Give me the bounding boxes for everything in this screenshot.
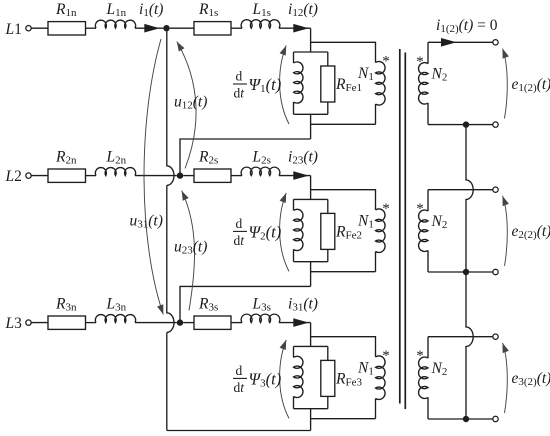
mid vertical through shunt (1) — [310, 114, 312, 139]
svg-text:i23(t): i23(t) — [288, 149, 318, 167]
secondary junction (2) — [463, 269, 469, 275]
wire R2s to L2s — [231, 175, 242, 177]
core separator line 1 — [399, 49, 401, 404]
svg-text:R1s: R1s — [198, 1, 218, 19]
N1 bottom rail (2) — [311, 271, 376, 273]
svg-text:L3n: L3n — [106, 296, 127, 314]
wire corner down (phase 1) — [310, 28, 312, 52]
current arrow i1(2) — [441, 38, 457, 47]
shunt bottom bar (1) — [294, 113, 328, 115]
secondary bottom terminal (3) — [493, 416, 498, 421]
winding N2 (unit 3) — [427, 337, 429, 358]
svg-text:u23(t): u23(t) — [174, 239, 207, 257]
svg-text:*: * — [416, 348, 424, 364]
svg-text:i1(2)(t) = 0: i1(2)(t) = 0 — [436, 17, 498, 35]
svg-text:dt: dt — [234, 380, 246, 395]
svg-text:L1: L1 — [5, 21, 22, 38]
flux arrow dPsi1/dt — [280, 46, 289, 125]
svg-text:L1n: L1n — [106, 1, 127, 19]
N1 bottom stub (2) — [375, 252, 377, 272]
svg-text:e3(2)(t): e3(2)(t) — [512, 370, 550, 388]
magnetizing inductor (unit 3) — [293, 346, 295, 357]
wire node to R3s — [183, 322, 194, 324]
node C junction — [177, 319, 183, 325]
voltage arrow u12 — [177, 42, 196, 169]
svg-text:N1: N1 — [357, 65, 374, 83]
svg-text:L3s: L3s — [252, 296, 271, 314]
wire R3n to L3n — [86, 322, 97, 324]
wire continue down (hop over L3) — [167, 185, 174, 332]
iron-loss resistor RFe2 — [327, 199, 329, 213]
emf arrow e3(2) — [503, 343, 508, 413]
secondary top rail (3) — [428, 336, 493, 338]
wire L3n to node — [135, 322, 177, 324]
secondary bottom rail (2) — [428, 271, 493, 273]
inductor L2s — [241, 167, 280, 175]
resistor R3s — [194, 316, 231, 329]
svg-text:L3: L3 — [5, 315, 23, 332]
iron-loss resistor RFe3 — [327, 346, 329, 360]
resistor R3n — [48, 316, 86, 329]
wire R3s to L3s — [231, 322, 242, 324]
emf arrow e1(2) — [503, 49, 508, 119]
phase terminal L2 — [26, 173, 31, 178]
wire L1 to R1n — [31, 27, 48, 29]
wire L1n to node A — [135, 27, 163, 29]
svg-text:e2(2)(t): e2(2)(t) — [512, 223, 550, 241]
secondary top terminal (2) — [493, 187, 498, 192]
svg-text:Ψ3(t): Ψ3(t) — [249, 369, 282, 389]
svg-text:N1: N1 — [357, 212, 374, 230]
secondary link wire 2-3 (hop) — [466, 272, 473, 419]
resistor R2n — [48, 169, 86, 182]
secondary top rail (1) — [428, 41, 493, 43]
return rail winding 1 to node B — [180, 139, 311, 173]
svg-text:*: * — [382, 201, 390, 217]
winding N2 (unit 2) — [427, 190, 429, 211]
wire R1n to L1n — [86, 27, 97, 29]
svg-text:e1(2)(t): e1(2)(t) — [512, 76, 550, 94]
winding N2 (unit 1) — [427, 42, 429, 63]
shunt bottom bar (3) — [294, 408, 328, 410]
resistor R1s — [194, 22, 231, 35]
secondary bottom terminal (2) — [493, 269, 498, 274]
top rail to N1 (2) — [311, 190, 376, 210]
wire R2n to L2n — [86, 175, 97, 177]
wire L2n to node — [135, 175, 177, 177]
secondary bottom rail (1) — [428, 124, 493, 126]
magnetizing inductor (unit 1) — [293, 52, 295, 63]
resistor R1n — [48, 22, 86, 35]
emf arrow e2(2) — [503, 196, 508, 266]
winding N1 (unit 1) — [376, 62, 386, 106]
current arrow i1 — [144, 24, 160, 33]
wire node to R2s — [183, 175, 194, 177]
svg-text:N2: N2 — [431, 213, 448, 231]
N1 bottom rail (3) — [311, 418, 376, 420]
shunt top bar (1) — [294, 51, 328, 53]
top rail to N1 (3) — [311, 337, 376, 357]
current arrow i23 — [293, 171, 309, 180]
wire node to R1s — [170, 27, 194, 29]
svg-text:d: d — [236, 363, 243, 378]
secondary top rail (2) — [428, 189, 493, 191]
svg-text:d: d — [236, 69, 243, 84]
voltage arrow u31 — [144, 39, 163, 315]
secondary bottom terminal (1) — [493, 122, 498, 127]
core separator line 2 — [404, 53, 406, 410]
inductor L3s — [241, 314, 280, 322]
svg-text:u12(t): u12(t) — [174, 94, 207, 112]
svg-text:N1: N1 — [357, 359, 374, 377]
N1 bottom rail (1) — [311, 123, 376, 125]
svg-text:N2: N2 — [431, 360, 448, 378]
svg-text:*: * — [416, 54, 424, 70]
svg-text:L2n: L2n — [106, 149, 127, 167]
return rail winding 3 to node A — [167, 430, 311, 432]
secondary bottom rail (3) — [428, 418, 493, 420]
node A junction — [163, 25, 169, 31]
wire L2s to winding 2 — [279, 175, 311, 177]
flux arrow dPsi3/dt — [280, 340, 289, 419]
svg-text:dt: dt — [234, 86, 246, 101]
shunt bottom bar (2) — [294, 261, 328, 263]
wire L2 to R2n — [31, 175, 48, 177]
N1 bottom stub (1) — [375, 104, 377, 124]
svg-text:d: d — [236, 216, 243, 231]
secondary top terminal (1) — [493, 40, 498, 45]
wire corner down (phase 2) — [310, 176, 312, 200]
svg-text:i1(t): i1(t) — [139, 1, 163, 19]
current arrow i12 — [293, 24, 309, 33]
shunt top bar (3) — [294, 345, 328, 347]
wire node A down (hop over L2) — [167, 31, 174, 185]
voltage arrow u23 — [182, 191, 195, 311]
svg-text:i12(t): i12(t) — [288, 1, 318, 19]
iron-loss resistor RFe1 — [327, 52, 329, 66]
node B junction — [177, 172, 183, 178]
wire L3 to R3n — [31, 322, 48, 324]
resistor R2s — [194, 169, 231, 182]
wire R1s to L1s — [231, 27, 242, 29]
secondary top terminal (3) — [493, 334, 498, 339]
svg-text:R3n: R3n — [55, 296, 77, 314]
secondary junction (3) — [463, 416, 469, 422]
wire corner down (phase 3) — [310, 323, 312, 347]
current arrow i31 — [293, 318, 309, 327]
svg-text:Ψ2(t): Ψ2(t) — [249, 222, 282, 242]
wire L1s to winding 1 — [279, 27, 311, 29]
phase terminal L3 — [26, 320, 31, 325]
inductor L1s — [241, 20, 280, 28]
winding N1 (unit 2) — [376, 209, 386, 253]
top rail to N1 (1) — [311, 42, 376, 62]
winding N1 (unit 3) — [376, 356, 386, 400]
wire L3s to winding 3 — [279, 322, 311, 324]
svg-text:*: * — [382, 348, 390, 364]
shunt top bar (2) — [294, 198, 328, 200]
svg-text:R2s: R2s — [198, 149, 218, 167]
svg-text:*: * — [382, 54, 390, 70]
inductor L3n — [95, 315, 135, 323]
svg-text:dt: dt — [234, 233, 246, 248]
secondary junction (1) — [463, 121, 469, 127]
phase terminal L1 — [26, 26, 31, 31]
mid vertical through shunt (3) — [310, 409, 312, 431]
svg-text:R1n: R1n — [55, 1, 77, 19]
svg-text:Ψ1(t): Ψ1(t) — [249, 75, 282, 95]
flux arrow dPsi2/dt — [280, 193, 289, 272]
mid vertical through shunt (2) — [310, 262, 312, 287]
return rail winding 2 to node C — [180, 286, 311, 319]
svg-text:u31(t): u31(t) — [130, 213, 163, 231]
wire to bottom rail — [166, 332, 168, 430]
svg-text:R3s: R3s — [198, 296, 218, 314]
svg-text:*: * — [416, 201, 424, 217]
inductor L1n — [95, 20, 135, 28]
N1 bottom stub (3) — [375, 399, 377, 419]
svg-text:L1s: L1s — [252, 1, 271, 19]
svg-text:L2s: L2s — [252, 149, 271, 167]
inductor L2n — [95, 168, 135, 176]
magnetizing inductor (unit 2) — [293, 199, 295, 210]
secondary link wire 1-2 (hop) — [466, 125, 473, 272]
svg-text:L2: L2 — [5, 168, 22, 185]
svg-text:R2n: R2n — [55, 149, 77, 167]
svg-text:N2: N2 — [431, 65, 448, 83]
svg-text:i31(t): i31(t) — [288, 296, 318, 314]
